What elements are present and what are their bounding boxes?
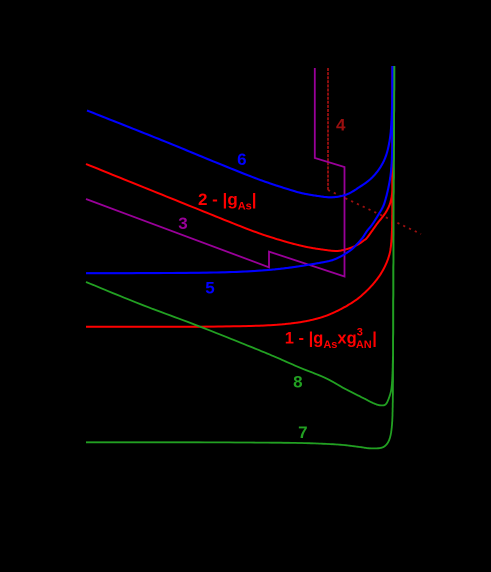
curve 6 blue (87, 66, 392, 197)
curve 3 purple polyline with steps (86, 68, 345, 277)
svg-text:7: 7 (298, 423, 307, 442)
curve 5 blue (86, 66, 393, 273)
curve 2 red (86, 66, 393, 251)
svg-text:3: 3 (178, 214, 187, 233)
svg-text:5: 5 (205, 279, 214, 298)
curve 1 red (86, 66, 392, 327)
svg-text:6: 6 (237, 150, 246, 169)
curve 7 green (86, 66, 394, 448)
curve 4 dark-red dotted diagonal segment (328, 190, 421, 234)
curve 8 green (86, 66, 394, 405)
svg-text:4: 4 (336, 115, 346, 134)
curve 4 dark-red dashed vertical segment (327, 68, 329, 190)
svg-text:8: 8 (293, 373, 302, 392)
